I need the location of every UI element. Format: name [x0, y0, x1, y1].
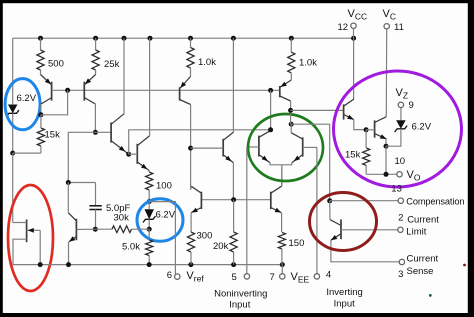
- wire Q3 collector: [123, 38, 125, 114]
- node QR collector: [289, 122, 294, 127]
- svg-text:Input: Input: [229, 300, 250, 311]
- wire base line to Q10: [291, 109, 344, 111]
- wire cap node: [68, 182, 95, 184]
- node Q6 base junction: [188, 146, 193, 151]
- svg-text:Noninverting: Noninverting: [214, 289, 267, 300]
- node Q1 collector junction: [38, 112, 43, 117]
- label VEE: [291, 271, 310, 285]
- svg-text:6.2V: 6.2V: [412, 122, 432, 133]
- label pin 2: [398, 212, 403, 223]
- wire Vcc drop: [353, 29, 355, 100]
- node Q4 base junction: [126, 152, 131, 157]
- wire QCL collector: [329, 201, 331, 220]
- svg-text:9: 9: [409, 100, 414, 111]
- svg-text:500: 500: [48, 59, 64, 70]
- wire Q9 collector: [290, 101, 292, 124]
- wire Vo node: [366, 146, 397, 174]
- wire zener D3 top: [400, 108, 402, 121]
- node QL collector: [268, 127, 273, 132]
- svg-text:Input: Input: [334, 299, 355, 310]
- svg-text:6.2V: 6.2V: [156, 210, 176, 221]
- wire Q7 collector: [190, 186, 193, 190]
- label Noninverting Input: [214, 289, 267, 311]
- wire Q12 collector: [67, 183, 69, 213]
- svg-text:4: 4: [326, 270, 331, 281]
- highlight green ellipse around diff pair: [248, 114, 323, 181]
- transistor Q2: [84, 75, 95, 105]
- wire base node drop: [41, 90, 68, 115]
- wire Q10 emitter: [354, 120, 366, 130]
- node lower base rail junction: [231, 197, 236, 202]
- svg-text:150: 150: [289, 238, 305, 249]
- label R1 500: [48, 59, 64, 70]
- label VC: [383, 8, 396, 22]
- wire Q4 collector: [149, 38, 151, 136]
- pin 5 noninverting: [244, 274, 249, 279]
- label Vref: [186, 270, 204, 284]
- label Compensation: [406, 197, 464, 207]
- label pin 5: [232, 272, 237, 283]
- label pin 13: [391, 184, 402, 195]
- svg-text:6.2V: 6.2V: [17, 93, 37, 104]
- svg-text:5.0k: 5.0k: [122, 242, 140, 253]
- svg-text:Compensation: Compensation: [406, 197, 464, 207]
- label R6 30k: [114, 213, 130, 224]
- node Q2 collector junction: [93, 130, 98, 135]
- highlight purple ellipse around output stage: [334, 71, 462, 187]
- wire Q8 collector: [281, 165, 283, 186]
- wire VC drop: [385, 29, 387, 117]
- label R12 15k: [345, 150, 361, 161]
- pin 13 compensation: [398, 198, 403, 203]
- svg-text:Limit: Limit: [406, 227, 426, 238]
- label pin 7: [270, 272, 275, 283]
- wire pin4 line: [316, 147, 318, 273]
- svg-text:300: 300: [197, 231, 213, 242]
- wire pin5 line: [246, 147, 248, 274]
- label R4 100: [156, 181, 172, 192]
- resistor R12 15k: [363, 130, 370, 175]
- svg-text:7: 7: [270, 272, 275, 283]
- svg-text:Sense: Sense: [407, 266, 434, 277]
- pin 11 VC: [384, 24, 389, 29]
- wire Q4 emitter: [148, 171, 150, 173]
- svg-text:1.0k: 1.0k: [198, 57, 216, 68]
- transistor Q15 diff right: [291, 133, 317, 163]
- svg-text:100: 100: [156, 181, 172, 192]
- pin 12 VCC: [351, 23, 356, 28]
- pin 9 VZ: [398, 102, 403, 107]
- transistor Q10: [344, 99, 354, 120]
- node cap tap: [66, 180, 71, 185]
- resistor R9 300: [187, 232, 194, 265]
- wire comp line: [291, 124, 330, 201]
- zener D3 6.2V: [386, 120, 407, 146]
- node Vref tap: [147, 199, 152, 204]
- transistor Q16 current limit: [330, 219, 341, 240]
- zener D1 6.2V: [6, 105, 19, 154]
- svg-text:5: 5: [232, 272, 237, 283]
- svg-text:15k: 15k: [345, 150, 361, 161]
- node Q11 emitter junction: [384, 144, 389, 149]
- resistor R3 25k: [92, 38, 99, 74]
- svg-text:10: 10: [395, 156, 406, 167]
- pin 4 inverting: [314, 274, 319, 279]
- resistor R5 5.0k: [146, 229, 153, 264]
- speck red: [463, 264, 466, 267]
- wire Q6 emitter: [232, 163, 234, 200]
- wire comp to pin13: [330, 200, 399, 202]
- label VO: [407, 169, 421, 183]
- highlight red ellipse around Q13: [8, 185, 53, 291]
- transistor Q1: [41, 75, 52, 105]
- wire lower base rail: [201, 199, 270, 201]
- label Current Sense: [407, 254, 439, 278]
- wire Q6 collector: [232, 38, 234, 132]
- node base rail junction B: [268, 88, 273, 93]
- svg-text:12: 12: [338, 22, 349, 33]
- svg-text:6: 6: [167, 270, 172, 281]
- svg-text:1.0k: 1.0k: [299, 58, 317, 69]
- node left wire junction: [10, 151, 15, 156]
- resistor R11 1.0k: [288, 38, 295, 80]
- transistor Q3: [111, 114, 128, 154]
- wire left down to mirror: [12, 153, 14, 222]
- wire Q11 emitter: [385, 139, 387, 146]
- label pin 10: [395, 156, 406, 167]
- wire Q5 collector: [190, 105, 192, 190]
- svg-text:Inverting: Inverting: [326, 287, 362, 298]
- label pin 6: [167, 270, 172, 281]
- label pin 4: [326, 270, 331, 281]
- label R10 150: [289, 238, 305, 249]
- resistor R1 500: [37, 38, 44, 74]
- label pin 11: [394, 22, 404, 33]
- wire mid horizontal: [129, 130, 271, 154]
- wire diff tail: [270, 163, 292, 186]
- transistor Q13 diode-connected: [13, 220, 41, 265]
- wire bottom V- rail: [13, 264, 283, 266]
- label R11 1.0k: [299, 58, 317, 69]
- resistor R7 1.0k: [187, 38, 194, 76]
- transistor Q11: [366, 117, 386, 139]
- wire Q13 emitter: [39, 230, 41, 264]
- svg-text:3: 3: [398, 269, 403, 280]
- node top rail junctions: [38, 36, 356, 41]
- label R3 25k: [104, 59, 120, 70]
- resistor R4 100: [146, 172, 153, 202]
- transistor Q7: [191, 186, 201, 212]
- wire base rail: [52, 89, 280, 91]
- pin 6 Vref: [175, 274, 180, 279]
- wire QR collector: [290, 124, 292, 133]
- zener D2 6.2V: [143, 202, 156, 230]
- label pin 9: [409, 100, 414, 111]
- node Vo junction: [384, 172, 389, 177]
- node Q11 base junction: [364, 127, 369, 132]
- node bottom rail junctions: [38, 262, 285, 267]
- label D2 6.2V: [156, 210, 176, 221]
- label R2 15k: [45, 130, 61, 141]
- wire Vref to pin6: [149, 202, 175, 275]
- svg-text:25k: 25k: [104, 59, 120, 70]
- speck green: [429, 294, 432, 297]
- transistor Q9: [280, 80, 292, 101]
- wire QR emitter join: [291, 163, 293, 165]
- label R8 20k: [213, 241, 229, 252]
- highlight blue ellipse around D2: [137, 199, 183, 242]
- label C1 5.0pF: [106, 203, 130, 214]
- svg-text:30k: 30k: [114, 213, 130, 224]
- svg-text:Current: Current: [407, 254, 439, 265]
- transistor Q14 diff left: [247, 131, 271, 163]
- label Inverting Input: [326, 287, 362, 310]
- svg-text:15k: 15k: [45, 130, 61, 141]
- wire collector node: [68, 132, 111, 182]
- wire QCL emitter: [331, 240, 399, 261]
- wire Q12 emitter: [68, 242, 70, 265]
- wire QCL base to pin2: [341, 229, 398, 231]
- resistor R8 20k: [230, 200, 237, 265]
- resistor R2 15k: [13, 115, 45, 153]
- svg-text:13: 13: [391, 184, 402, 195]
- node Q9-QL junction: [288, 108, 293, 113]
- label pin 12: [338, 22, 349, 33]
- resistor R6 30k: [95, 226, 149, 233]
- wire Q2 collector: [94, 104, 96, 132]
- transistor Q8: [271, 186, 282, 212]
- wire top V+ rail: [13, 37, 354, 39]
- transistor Q4: [129, 136, 150, 171]
- transistor Q12: [68, 213, 95, 242]
- resistor R10 150: [278, 232, 285, 264]
- label D1 6.2V: [17, 93, 37, 104]
- node cap bottom junction: [93, 227, 98, 232]
- label pin 3: [398, 269, 403, 280]
- node D2 cathode junction: [147, 227, 152, 232]
- svg-text:2: 2: [398, 212, 403, 223]
- transistor Q6: [191, 132, 234, 163]
- highlight blue ellipse around D1: [5, 79, 40, 130]
- wire QL collector node: [270, 90, 272, 130]
- label VZ: [396, 87, 409, 101]
- label Current Limit: [406, 215, 439, 238]
- pin 2 current limit: [398, 227, 403, 232]
- node base rail junction A: [65, 88, 70, 93]
- label VCC: [348, 8, 368, 22]
- wire left V+ branch: [12, 38, 14, 104]
- transistor Q5: [180, 77, 191, 105]
- label D3 6.2V: [412, 122, 432, 133]
- highlight dark-red ellipse around Q16: [310, 193, 377, 251]
- label R7 1.0k: [198, 57, 216, 68]
- pin 3 current sense: [399, 259, 404, 264]
- wire Q1 collector: [40, 104, 42, 115]
- capacitor C1 5.0pF: [89, 183, 101, 230]
- node compensation junction: [327, 198, 332, 203]
- pin 10 VO: [397, 172, 402, 177]
- wire pin7 stub: [281, 265, 283, 274]
- wire Q7 emitter: [190, 213, 192, 232]
- svg-text:11: 11: [394, 22, 404, 33]
- label R9 300: [197, 231, 213, 242]
- svg-text:20k: 20k: [213, 241, 229, 252]
- svg-text:Current: Current: [407, 215, 439, 226]
- wire Q8 emitter: [281, 213, 283, 232]
- label R5 5.0k: [122, 242, 140, 253]
- pin 7 VEE: [280, 274, 285, 279]
